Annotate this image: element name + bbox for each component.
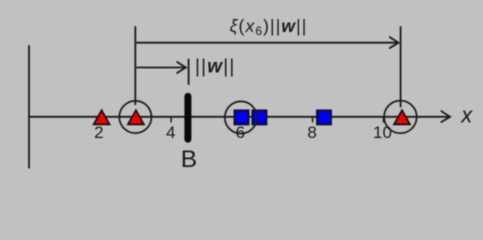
svg-text:x: x xyxy=(460,103,473,128)
tick 10 xyxy=(383,117,385,123)
red triangle at x=2 xyxy=(94,110,110,124)
svg-text:ξ(x6)||w||: ξ(x6)||w|| xyxy=(230,16,308,38)
tick 8 xyxy=(312,117,314,123)
blue square at x=8.3 xyxy=(317,110,331,124)
circle around square at x=6 xyxy=(225,101,257,133)
svg-text:4: 4 xyxy=(166,123,175,142)
svg-text:2: 2 xyxy=(94,123,103,142)
circle around triangle at x=3 xyxy=(119,101,151,133)
decision boundary thick bar B xyxy=(184,96,191,139)
slack arrow xi(x6)||w|| xyxy=(136,37,398,49)
guide line above point x=10.5 xyxy=(400,26,402,107)
tick 6 xyxy=(241,117,243,123)
svg-text:10: 10 xyxy=(373,123,392,142)
tick 2 xyxy=(99,117,101,123)
blue square at x=6 (support vector) xyxy=(234,110,248,124)
blue square at x=6.5 xyxy=(252,110,266,124)
svg-text:8: 8 xyxy=(307,123,316,142)
circle around triangle at x=10.5 xyxy=(384,101,417,134)
svg-text:B: B xyxy=(181,146,197,173)
svg-text:||w||: ||w|| xyxy=(195,57,236,78)
left boundary vertical line xyxy=(28,45,30,168)
red triangle at x=10.5 xyxy=(394,110,410,124)
guide line above support vector x=3 xyxy=(134,26,136,105)
margin end tick xyxy=(188,59,190,85)
tick 4 xyxy=(170,117,172,123)
margin arrow ||w|| xyxy=(136,62,186,74)
x-axis xyxy=(28,111,450,123)
red triangle at x=3 (support vector) xyxy=(128,110,144,124)
